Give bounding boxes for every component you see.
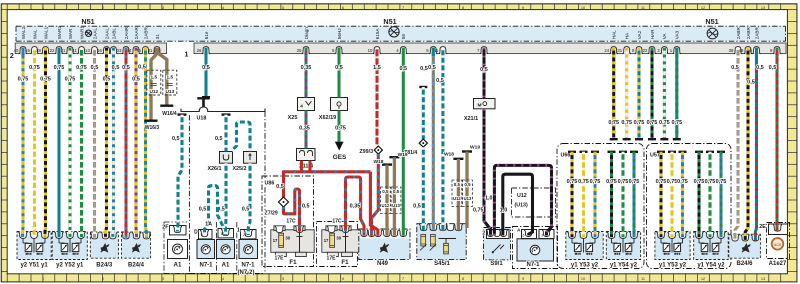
svg-text:24: 24 (604, 48, 609, 53)
svg-text:9: 9 (522, 277, 524, 281)
svg-text:17C: 17C (332, 219, 342, 225)
svg-text:VA: VA (662, 32, 667, 39)
svg-text:B24/3: B24/3 (96, 263, 113, 269)
svg-text:1: 1 (42, 6, 44, 10)
svg-text:0,5: 0,5 (731, 65, 739, 71)
pin 8 (VA2) (632, 30, 643, 53)
svg-text:0,5: 0,5 (302, 204, 310, 210)
svg-text:1,0: 1,0 (500, 208, 508, 214)
unit A1 (1A) (205, 222, 234, 269)
svg-text:(N7-2): (N7-2) (237, 270, 254, 276)
svg-text:0,75: 0,75 (667, 179, 678, 185)
sensor B24/4 (121, 232, 151, 269)
wire sw/ge pin29 to B24/6 (745, 48, 755, 241)
wire br pin31 to ground W16/3 (151, 48, 156, 120)
svg-text:U57: U57 (650, 153, 660, 159)
connector X62/19 (319, 98, 348, 122)
svg-text:y1 Y53 y2: y1 Y53 y2 (571, 263, 599, 269)
pin 40 (WAL2) (14, 26, 28, 53)
svg-text:2AAL: 2AAL (104, 28, 109, 40)
wire shift group pin x664 (659, 48, 670, 141)
pin 38 (2ABR) (729, 27, 743, 54)
wire sw/vi pin7 to M-6 (480, 48, 488, 99)
svg-text:WAL1: WAL1 (43, 26, 48, 39)
switch S9/1 (482, 228, 510, 268)
pin 24 (HAL) (604, 30, 618, 54)
svg-text:WAR2: WAR2 (57, 26, 62, 40)
svg-text:31: 31 (155, 34, 160, 40)
svg-text:2ABR: 2ABR (143, 27, 148, 40)
svg-text:11: 11 (641, 6, 645, 10)
svg-text:17E: 17E (327, 255, 337, 261)
svg-text:0,75: 0,75 (29, 65, 40, 71)
svg-text:0,75: 0,75 (65, 77, 76, 83)
svg-text:W16/3: W16/3 (145, 125, 160, 131)
svg-text:30: 30 (336, 236, 341, 241)
internal wire x710 (705, 151, 716, 238)
svg-text:0,5: 0,5 (436, 78, 444, 84)
pin 10 (615A) (368, 28, 382, 54)
N51 connector strip 2 (10, 43, 167, 60)
pin 16 (2AAL) (97, 28, 111, 54)
svg-text:0,5: 0,5 (393, 189, 400, 194)
svg-text:0,5: 0,5 (132, 77, 140, 83)
internal wire x661 (656, 151, 667, 238)
svg-text:31: 31 (148, 48, 153, 53)
svg-text:WAL: WAL (32, 29, 37, 39)
svg-text:0,5: 0,5 (382, 189, 389, 194)
unit U86 box (262, 176, 314, 267)
wire sw loop S9/1 to N7-1 pin1 (503, 174, 533, 235)
wire wh/gn pin21 to Y52 (65, 48, 76, 238)
svg-text:8: 8 (462, 6, 464, 10)
svg-text:y1 Y54 y2: y1 Y54 y2 (697, 263, 725, 269)
wire bl/wh pin11 to S45/1 (436, 48, 444, 231)
connector X26/1 (207, 152, 232, 173)
svg-text:0,75: 0,75 (629, 179, 640, 185)
wire gr/wh pin13 to B24/3 (91, 48, 99, 238)
svg-text:VA3: VA3 (675, 30, 680, 39)
suppressor U12 (U13) at N7-1 (512, 188, 556, 217)
svg-text:7: 7 (402, 277, 404, 281)
svg-text:4: 4 (300, 103, 303, 108)
svg-text:0,75: 0,75 (40, 77, 51, 83)
svg-text:0,5: 0,5 (428, 65, 436, 71)
wire rt X11/4 feed to bus (302, 161, 311, 172)
svg-text:0,75: 0,75 (54, 65, 65, 71)
svg-text:GES: GES (333, 154, 347, 161)
ground W19 at S45/1 (462, 144, 480, 228)
wire bl loop to N7-1 (199, 186, 224, 235)
svg-text:0,75: 0,75 (578, 179, 589, 185)
suppressor pair at N49 (381, 187, 401, 214)
pin 22 (WAR2) (50, 26, 64, 54)
control unit N7-1 right (513, 227, 558, 269)
wire bl/rt pin6 to B24/6 (755, 48, 763, 241)
valve block Y54 right (694, 232, 729, 269)
valve block Y54 left (606, 232, 640, 269)
pin 26 (61e) (197, 31, 211, 54)
svg-text:D: D (194, 230, 198, 236)
svg-text:2ABR: 2ABR (736, 27, 741, 40)
internal wire x682 (677, 151, 688, 238)
svg-text:y2 Y51 y1: y2 Y51 y1 (20, 263, 48, 269)
svg-text:3: 3 (541, 233, 543, 237)
wire bl/ge pin35 to B24/4 (138, 48, 146, 238)
svg-text:A1e27: A1e27 (769, 261, 787, 267)
pin 2 (VA) (657, 32, 668, 53)
svg-text:N51: N51 (705, 17, 718, 26)
pin 25 (Diagn) (297, 27, 311, 54)
wire ge/bl pin40 to Y51 y2 (18, 48, 29, 238)
wire bl/wh Z81/4 to S45/1 (413, 147, 423, 230)
svg-text:W19: W19 (398, 152, 408, 158)
wire rt bus to Z7/29 (276, 171, 284, 198)
svg-text:3: 3 (162, 6, 164, 10)
svg-text:25: 25 (297, 48, 302, 53)
svg-text:5: 5 (282, 6, 284, 10)
wire sw/vi M-6 to S9/1 (484, 109, 491, 236)
svg-text:0,75: 0,75 (608, 120, 619, 126)
svg-text:1: 1 (42, 277, 44, 281)
svg-text:0,75: 0,75 (621, 120, 632, 126)
ground W18 at N49 (373, 159, 392, 236)
suppressor pair at S45/1 (452, 180, 472, 207)
svg-text:0,5: 0,5 (122, 65, 130, 71)
sensor B24/6 (729, 234, 761, 267)
svg-text:6: 6 (342, 277, 344, 281)
svg-text:0,75: 0,75 (335, 126, 346, 132)
svg-text:2: 2 (10, 53, 14, 60)
ground W19 at N49 (389, 152, 408, 236)
svg-text:13: 13 (761, 277, 765, 281)
svg-text:5: 5 (201, 233, 203, 237)
wire shift group pin x613 (608, 48, 619, 141)
wire shift group pin x652 (647, 48, 658, 141)
svg-text:S45/1: S45/1 (434, 261, 450, 267)
svg-text:0,5: 0,5 (756, 65, 764, 71)
unit N7-1 (D) (194, 230, 214, 269)
svg-text:W18: W18 (373, 159, 383, 165)
pin 11 (wire) (434, 47, 447, 54)
ground W18 at S45/1 (444, 151, 463, 230)
internal wire x595 (590, 151, 601, 238)
svg-text:X25/2: X25/2 (232, 166, 246, 172)
svg-text:X21/1: X21/1 (464, 116, 478, 122)
wire br pin31 to ground W16/4 (158, 48, 167, 105)
svg-text:0,5: 0,5 (202, 65, 210, 71)
valve block Y53 left (566, 232, 603, 269)
svg-text:HA: HA (625, 32, 630, 39)
svg-text:0,5: 0,5 (215, 136, 223, 142)
internal wire x634 (629, 151, 640, 238)
wire petrol pin22 to Y52 y2 (54, 48, 65, 238)
svg-text:10: 10 (368, 48, 373, 53)
ground symbol on N51 bus left (85, 30, 91, 36)
svg-text:6: 6 (342, 6, 344, 10)
svg-text:N49: N49 (377, 261, 389, 267)
pin 31 (HA) (617, 32, 631, 54)
svg-text:38: 38 (36, 48, 41, 53)
svg-text:Diagn: Diagn (304, 27, 309, 39)
svg-text:0,75: 0,75 (76, 65, 87, 71)
svg-text:B24/6: B24/6 (736, 261, 753, 267)
svg-text:61e: 61e (204, 31, 209, 39)
wire bl to A1 (172, 113, 187, 231)
amplifier U18 housing (181, 107, 265, 274)
svg-text:0,35: 0,35 (299, 126, 310, 132)
svg-text:VA2: VA2 (637, 30, 642, 39)
svg-text:10: 10 (581, 6, 585, 10)
svg-text:26: 26 (197, 48, 202, 53)
svg-text:22: 22 (50, 48, 55, 53)
svg-text:N7-1: N7-1 (526, 262, 540, 268)
svg-text:B24/4: B24/4 (128, 263, 145, 269)
connector X25 (288, 98, 315, 122)
svg-text:2AAL: 2AAL (92, 28, 97, 40)
internal wire x623 (618, 151, 629, 238)
internal wire x572 (567, 151, 578, 238)
clock unit A1e27 (759, 223, 789, 267)
svg-text:13: 13 (85, 48, 90, 53)
wire bl loop over X25/2 (232, 122, 251, 152)
svg-text:0,5: 0,5 (480, 67, 488, 73)
svg-text:X26/1: X26/1 (207, 166, 221, 172)
svg-text:U12: U12 (453, 196, 461, 201)
svg-text:1,5: 1,5 (151, 75, 158, 80)
wire petrol pin26 61e stub (202, 48, 210, 99)
svg-text:U18: U18 (197, 116, 207, 122)
pin 9 (wire) (770, 47, 781, 54)
svg-text:17: 17 (324, 238, 329, 243)
control unit N49 (359, 229, 410, 267)
pin 34 (2AAR) (127, 27, 141, 54)
svg-text:0,75: 0,75 (606, 179, 617, 185)
svg-text:U13: U13 (165, 89, 174, 94)
pin 4 (58) (396, 34, 407, 54)
svg-text:17: 17 (273, 238, 278, 243)
internal wire x672 (667, 151, 678, 238)
wire rt bus (284, 170, 371, 173)
svg-text:4: 4 (222, 277, 224, 281)
wire bl X25/2 to N7-2 (242, 163, 250, 235)
suppressor U12 left (147, 70, 161, 95)
svg-text:WAL2: WAL2 (21, 26, 26, 39)
svg-text:0,75: 0,75 (705, 179, 716, 185)
pin 38 (WAL1) (36, 26, 50, 53)
svg-text:0,75: 0,75 (18, 77, 29, 83)
svg-text:U12: U12 (382, 203, 390, 208)
wire rt/bl Z99/3 to N49 (372, 154, 379, 236)
svg-text:38: 38 (729, 48, 734, 53)
valve block Y51 (17, 232, 51, 269)
internal wire x699 (694, 151, 705, 238)
wire wh/bl pin15 to B24/3 (112, 48, 120, 238)
wire rt pin10 to Z99/3 (373, 48, 381, 145)
svg-text:1A: 1A (205, 222, 212, 228)
connector X11/4 (297, 149, 316, 170)
svg-text:22: 22 (643, 48, 648, 53)
svg-text:2ABR: 2ABR (746, 27, 751, 40)
svg-text:0,75: 0,75 (590, 179, 601, 185)
pin 21 (WAR) (61, 28, 75, 54)
connector X25/2 (232, 152, 256, 173)
svg-text:0,75: 0,75 (634, 120, 645, 126)
svg-text:0,75: 0,75 (473, 208, 484, 214)
svg-text:N7-1: N7-1 (241, 263, 255, 269)
svg-text:17E: 17E (275, 255, 285, 261)
pin 33 (2AHR) (117, 26, 131, 53)
svg-text:0,5: 0,5 (335, 65, 343, 71)
svg-text:19: 19 (25, 48, 30, 53)
svg-text:X62/19: X62/19 (319, 115, 336, 121)
svg-text:0,75: 0,75 (659, 120, 670, 126)
wire vi/gn pin25 Diagn to X25 (301, 48, 312, 98)
fuse box F1 left (271, 219, 314, 266)
svg-text:U12: U12 (149, 89, 158, 94)
svg-text:0,75: 0,75 (647, 120, 658, 126)
svg-text:0,5: 0,5 (112, 65, 120, 71)
wire bl X26/1 to A1 (217, 163, 226, 235)
arrow GES (333, 142, 347, 161)
svg-text:HAR: HAR (650, 29, 655, 39)
pin x (2ABL) (109, 28, 117, 54)
pin 29 (2ABR) (739, 27, 753, 54)
svg-text:33: 33 (117, 48, 122, 53)
svg-text:2: 2 (102, 277, 104, 281)
wire sw/vi loop S9/1 to N7-1 pin2 (494, 165, 551, 235)
svg-text:4: 4 (222, 6, 224, 10)
wire bl U18 to X26/1 (215, 113, 231, 151)
resistor unit S45/1 (417, 224, 466, 267)
svg-text:12: 12 (701, 6, 705, 10)
svg-text:U86: U86 (265, 180, 275, 186)
wire ge/wh pin19 to Y51 (29, 48, 40, 238)
svg-text:0,5: 0,5 (103, 77, 111, 83)
svg-text:13: 13 (761, 6, 765, 10)
svg-text:615A: 615A (375, 28, 380, 40)
svg-text:U66: U66 (561, 153, 571, 159)
svg-text:HAL: HAL (612, 30, 617, 39)
wire gn pin5 to X62/19 (335, 48, 343, 98)
wire rt Z7/29 to fuse F1 left (284, 189, 310, 232)
svg-text:0,5: 0,5 (769, 65, 777, 71)
svg-text:16: 16 (220, 232, 224, 236)
connector M-6 X21/1 (464, 99, 495, 123)
svg-text:0,5: 0,5 (242, 207, 250, 213)
pin 6 (wire) (426, 47, 437, 54)
svg-text:F1: F1 (341, 259, 349, 266)
wire br/bl pin6 to S45/1 (428, 48, 436, 231)
svg-text:Z7/29: Z7/29 (265, 211, 278, 217)
pin 13 (2AAL) (85, 28, 99, 54)
terminal stub into U18 (197, 97, 209, 107)
svg-text:0,5: 0,5 (276, 184, 284, 190)
ground W16/4 (160, 105, 177, 118)
pin 6 (2ABR) (750, 27, 761, 54)
svg-text:10: 10 (581, 277, 585, 281)
U18 internal separators (217, 222, 237, 274)
fuse box F1 right (322, 219, 365, 266)
sensor B24/3 (90, 232, 118, 269)
svg-text:0,75: 0,75 (656, 179, 667, 185)
shift module U57 housing (647, 144, 732, 269)
svg-text:0,5: 0,5 (138, 65, 146, 71)
svg-text:W19: W19 (470, 144, 480, 150)
pin designator labels (162, 166, 766, 237)
svg-text:0,5: 0,5 (413, 204, 421, 210)
wire rt link F1 right to N49 (346, 177, 365, 236)
svg-text:X25: X25 (288, 115, 298, 121)
svg-text:0,5: 0,5 (454, 182, 461, 187)
wire ge/sw pin16 to B24/3 (103, 48, 111, 238)
valve block Y52 (52, 232, 87, 269)
wire vi/gn X25 to X11/4 (299, 111, 310, 149)
svg-text:N51: N51 (383, 17, 396, 26)
svg-text:16: 16 (97, 48, 102, 53)
svg-text:F1: F1 (289, 259, 297, 266)
svg-text:ACS: ACS (774, 243, 782, 247)
svg-text:2: 2 (102, 6, 104, 10)
svg-text:2F: 2F (162, 225, 169, 231)
wire shift group pin x676 (671, 48, 682, 141)
solder joint Z81/4 (404, 139, 427, 156)
svg-text:40: 40 (14, 48, 19, 53)
wire gn X62/19 to GES (335, 111, 346, 142)
suppressor U13 left (163, 70, 177, 95)
wire gn pin4 to N49 (399, 48, 407, 236)
svg-text:0,75: 0,75 (618, 179, 629, 185)
solder joint Z7/29 (265, 197, 289, 217)
pin 35 (2ABR) (136, 27, 150, 54)
svg-text:N7-1: N7-1 (199, 263, 213, 269)
svg-text:WAR: WAR (68, 28, 73, 39)
svg-text:0,5: 0,5 (199, 207, 207, 213)
svg-text:y1 Y54 y2: y1 Y54 y2 (610, 263, 638, 269)
svg-text:8: 8 (462, 277, 464, 281)
ground W16/3 (145, 120, 160, 132)
pin 19 (WAL) (25, 29, 39, 54)
svg-text:0,5: 0,5 (464, 182, 471, 187)
svg-text:17C: 17C (286, 219, 296, 225)
wire rt bus end to N49 (370, 172, 378, 236)
svg-text:W18: W18 (444, 151, 454, 157)
svg-text:11: 11 (641, 277, 645, 281)
unit A1 (2F) (162, 222, 189, 274)
svg-text:0,75: 0,75 (567, 179, 578, 185)
svg-text:0,35: 0,35 (350, 204, 361, 210)
solder joint Z99/3 (359, 146, 382, 155)
wire ge/vi pin34 to B24/4 (132, 48, 140, 238)
svg-text:2AHR: 2AHR (124, 26, 129, 39)
svg-text:0,35: 0,35 (301, 65, 312, 71)
svg-text:1,5: 1,5 (167, 75, 174, 80)
svg-text:y1 Y53 y2: y1 Y53 y2 (659, 263, 687, 269)
pin 22 (HAR) (643, 29, 657, 54)
svg-text:1,0: 1,0 (485, 196, 493, 202)
svg-text:2E: 2E (759, 224, 766, 230)
wire shift group pin x626 (621, 48, 632, 141)
svg-text:3: 3 (162, 277, 164, 281)
svg-text:56HJ: 56HJ (337, 28, 342, 39)
svg-text:12: 12 (701, 277, 705, 281)
svg-text:2ABR: 2ABR (754, 27, 759, 40)
svg-text:21: 21 (61, 48, 66, 53)
svg-text:M: M (478, 102, 482, 108)
ground symbol on N51 bus center (389, 27, 399, 37)
svg-text:N51: N51 (81, 17, 94, 26)
wire shift group pin x639 (634, 48, 645, 141)
